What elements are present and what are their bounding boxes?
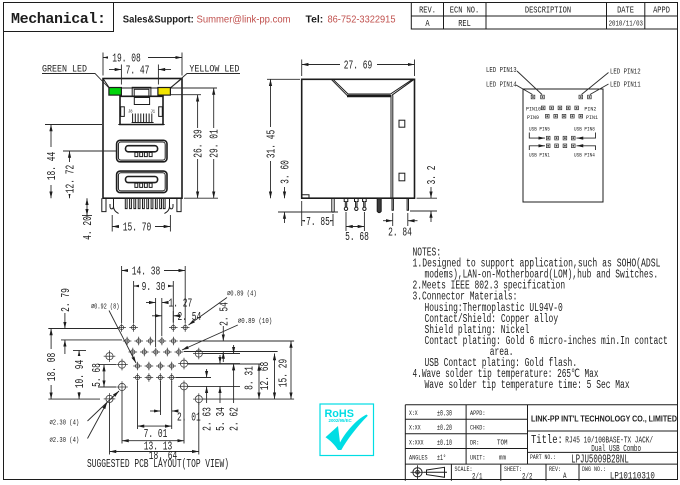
svg-text:LED PIN14: LED PIN14	[486, 82, 517, 90]
svg-text:SHEET:: SHEET:	[504, 466, 522, 473]
right extension lines	[176, 341, 294, 399]
Mechanical title box	[4, 3, 114, 32]
dim 27.69 extension lines	[302, 60, 415, 77]
svg-text:7. 85: 7. 85	[306, 215, 330, 229]
svg-text:LED PIN12: LED PIN12	[610, 69, 641, 77]
front view left flange leg	[102, 198, 106, 211]
svg-text:J1: J1	[151, 111, 156, 115]
svg-text:2. 54: 2. 54	[178, 310, 202, 324]
svg-text:18. 08: 18. 08	[45, 353, 59, 381]
svg-text:4. 20: 4. 20	[81, 216, 95, 240]
dim 5.68 ticks	[98, 365, 116, 387]
svg-text:X:XX: X:XX	[409, 425, 421, 432]
dim 3.60	[284, 187, 286, 198]
dim 27.69	[302, 64, 415, 66]
dim 18.08	[50, 329, 52, 400]
side pin thick dark	[377, 198, 381, 212]
svg-text:PIN2: PIN2	[584, 107, 596, 113]
svg-text:mm: mm	[499, 455, 506, 463]
svg-text:12. 68: 12. 68	[258, 362, 272, 390]
led holes row A	[120, 325, 124, 329]
svg-text:2. 01: 2. 01	[177, 411, 201, 425]
svg-text:A: A	[425, 18, 430, 29]
svg-text:ANGLES: ANGLES	[409, 455, 428, 462]
RJ45 inner window	[134, 98, 149, 105]
dim 1.27	[146, 302, 156, 304]
svg-text:SUGGESTED PCB LAYOUT(TOP VIEW): SUGGESTED PCB LAYOUT(TOP VIEW)	[87, 458, 229, 471]
svg-text:31. 45: 31. 45	[265, 130, 279, 158]
leader LED PIN13	[517, 71, 542, 95]
row B extension left	[61, 339, 122, 341]
svg-text:DR:: DR:	[470, 440, 479, 447]
side view body outline	[302, 79, 415, 198]
svg-text:9. 30: 9. 30	[142, 280, 166, 294]
dim 7.85	[302, 220, 333, 222]
svg-text:X:XXX: X:XXX	[409, 440, 424, 447]
dim 4.20	[86, 198, 88, 215]
svg-text:1. 27: 1. 27	[169, 297, 193, 311]
svg-text:A: A	[563, 471, 567, 481]
side ball pin 1	[344, 198, 348, 207]
leader dia 0.92	[109, 311, 136, 364]
leader LED PIN11	[590, 84, 609, 95]
svg-text:5. 68: 5. 68	[90, 363, 104, 387]
leader dia 2.30 b	[88, 403, 108, 439]
svg-text:⌀0.89 (10): ⌀0.89 (10)	[238, 318, 272, 326]
leader dia 2.30 a	[88, 391, 120, 421]
svg-text:⌀2.30 (4): ⌀2.30 (4)	[50, 437, 80, 445]
svg-text:3. 2: 3. 2	[425, 166, 439, 185]
svg-text:±0.30: ±0.30	[437, 409, 452, 419]
dim 12.72	[69, 151, 71, 198]
RJ45 port top tab	[132, 87, 151, 96]
svg-text:REV:: REV:	[549, 466, 561, 473]
svg-text:±0.20: ±0.20	[437, 423, 452, 433]
dim 2.79	[64, 313, 66, 329]
revision table	[411, 3, 678, 30]
svg-text:27. 69: 27. 69	[344, 59, 372, 73]
usb shield holes inner	[118, 361, 125, 368]
svg-text:±1°: ±1°	[437, 453, 446, 463]
mounting holes outer	[106, 353, 113, 360]
side pin thick left	[332, 198, 334, 212]
svg-text:DESCRIPTION: DESCRIPTION	[525, 5, 571, 16]
RoHS checkmark	[326, 415, 368, 451]
leader USB PIN1	[529, 146, 545, 150]
usb hole row D	[135, 364, 139, 368]
leader LED PIN12	[582, 73, 609, 95]
front view body outline	[103, 79, 182, 199]
dim 18.44 extension line top	[45, 124, 102, 126]
dim 2.84 extension lines	[393, 213, 408, 226]
led pin holes	[531, 95, 535, 99]
projection symbol cone	[424, 467, 447, 477]
svg-text:LP10110310: LP10110310	[610, 472, 655, 483]
svg-text:12. 72: 12. 72	[64, 165, 78, 193]
usb pin row 2	[546, 144, 550, 148]
green LED	[109, 88, 122, 96]
dim 9.30	[134, 285, 174, 287]
dim 31.45 extension line	[267, 78, 300, 80]
svg-text:LPJU5009B28NL: LPJU5009B28NL	[571, 453, 629, 467]
dim 13.13	[122, 440, 184, 442]
svg-text:5. 68: 5. 68	[345, 230, 369, 244]
svg-text:2002/95/EC: 2002/95/EC	[329, 418, 353, 423]
RJ45 bottom flange	[118, 124, 164, 126]
svg-text:7. 47: 7. 47	[126, 64, 150, 78]
dim 2.84	[383, 220, 393, 222]
svg-text:10. 94: 10. 94	[73, 360, 87, 388]
dim 5.68 side	[346, 226, 364, 228]
side ball pin 3	[363, 198, 367, 207]
dim 31.45	[270, 79, 272, 198]
svg-text:⌀0.89 (4): ⌀0.89 (4)	[227, 291, 257, 299]
leader dia 0.89 (10)	[182, 325, 238, 350]
svg-text:⌀2.30 (4): ⌀2.30 (4)	[50, 420, 80, 428]
dim 14.38 extension lines	[122, 266, 186, 323]
USB port 1	[117, 140, 167, 162]
dim 3.2	[430, 187, 432, 198]
svg-text:3. 60: 3. 60	[279, 160, 293, 184]
svg-text:2010/11/03: 2010/11/03	[609, 21, 644, 29]
bottom extension left	[48, 398, 100, 400]
svg-text:REV.: REV.	[419, 5, 436, 16]
dim 2.54 vertical right	[222, 326, 224, 341]
svg-text:X:X: X:X	[409, 410, 418, 417]
dim 15.29	[290, 341, 292, 399]
leader USB PIN5	[529, 133, 545, 139]
dim 15.70	[112, 226, 170, 228]
dim 18.64	[110, 451, 199, 453]
dim 7.01	[138, 425, 172, 427]
hole row C	[131, 350, 135, 354]
svg-text:USB PIN8: USB PIN8	[574, 127, 595, 133]
svg-text:APPD:: APPD:	[470, 410, 486, 417]
svg-text:APPD: APPD	[653, 5, 670, 16]
svg-text:ECN NO.: ECN NO.	[450, 5, 479, 16]
svg-text:Sales&Support:Summer@link-pp.c: Sales&Support:Summer@link-pp.comTel:86-7…	[123, 15, 396, 26]
dim 2.62	[233, 364, 235, 403]
dim 9.30 extension lines	[134, 281, 174, 323]
svg-text:PIN1: PIN1	[586, 115, 598, 121]
svg-text:USB PIN5: USB PIN5	[529, 127, 550, 133]
RJ45 port body	[120, 96, 163, 124]
svg-text:SCALE:: SCALE:	[455, 466, 473, 473]
svg-text:2. 84: 2. 84	[388, 226, 412, 240]
svg-text:⌀0.92 (8): ⌀0.92 (8)	[91, 304, 119, 312]
svg-text:DWG NO.:: DWG NO.:	[582, 466, 606, 473]
dim 19.08 extension lines	[103, 53, 182, 76]
svg-text:2. 54: 2. 54	[217, 302, 231, 326]
svg-text:CHKD:: CHKD:	[470, 425, 486, 432]
row A extension left	[48, 328, 118, 330]
dim 2.63	[206, 386, 208, 403]
dim 1.27 extension lines	[156, 298, 162, 347]
front view bottom pins	[125, 198, 127, 208]
svg-text:29. 01: 29. 01	[208, 129, 222, 157]
svg-text:LINK-PP INT'L TECHNOLOGY CO.,: LINK-PP INT'L TECHNOLOGY CO., LIMITED	[531, 414, 677, 424]
front view top chamfers	[103, 79, 182, 89]
svg-text:PART NO.:: PART NO.:	[530, 454, 556, 461]
svg-text:5. 34: 5. 34	[214, 407, 228, 431]
svg-text:2/1: 2/1	[472, 472, 483, 482]
svg-text:15. 70: 15. 70	[123, 221, 151, 235]
side ball pin 2	[355, 198, 359, 207]
usb pin row 1	[546, 136, 550, 140]
pin row PIN10-PIN2	[541, 106, 545, 110]
svg-text:DATE: DATE	[617, 5, 634, 16]
dim 7.85 extension lines	[302, 201, 333, 226]
yellow LED	[158, 88, 171, 96]
pin row PIN9-PIN1	[546, 114, 550, 118]
projection symbol circle	[413, 468, 422, 477]
dim 29.01 extension line	[171, 87, 217, 89]
svg-text:Title:: Title:	[531, 433, 563, 447]
svg-text:LED PIN13: LED PIN13	[486, 67, 517, 75]
dim 2.01	[150, 410, 161, 412]
svg-text:±0.10: ±0.10	[437, 438, 452, 448]
side latch window lower	[399, 173, 405, 181]
bottom extension verticals	[110, 381, 199, 455]
title block grid	[405, 405, 678, 481]
dim 2.54 top	[152, 315, 162, 317]
leader USB PIN4	[577, 146, 596, 150]
svg-text:15. 29: 15. 29	[277, 359, 291, 387]
side thin pin 1	[392, 198, 393, 210]
svg-text:2. 63: 2. 63	[201, 407, 215, 431]
dim 26.39	[197, 95, 199, 199]
svg-text:18. 44: 18. 44	[45, 152, 59, 180]
dim 5.68 extension lines	[346, 212, 364, 231]
side view bottom step	[302, 195, 309, 198]
side view inner vertical edge	[391, 95, 393, 198]
leader USB PIN8	[577, 133, 596, 139]
leader LED PIN14	[516, 85, 533, 95]
hole row B	[125, 339, 129, 343]
dim 2.54 top extension	[172, 311, 174, 322]
svg-text:Mechanical:: Mechanical:	[11, 11, 106, 28]
dim 10.94	[78, 351, 80, 400]
svg-text:8. 31: 8. 31	[243, 366, 257, 390]
front view right flange leg	[177, 198, 181, 211]
dim 26.39 extension lines	[171, 95, 218, 199]
leader dia 0.89 (4)	[189, 298, 228, 326]
row C extension left	[73, 350, 86, 352]
side latch window upper	[399, 120, 405, 127]
svg-text:Contact plating: Gold 6 micro-: Contact plating: Gold 6 micro-inches min…	[425, 335, 668, 348]
svg-text:2/2: 2/2	[522, 472, 533, 482]
RJ45 side latch left	[121, 107, 125, 117]
side thin pin 2	[407, 198, 408, 210]
dim 12.72 extension line top	[63, 150, 116, 152]
pin layout outline	[523, 89, 603, 202]
dim 12.68	[274, 354, 276, 400]
svg-text:LED PIN11: LED PIN11	[610, 82, 641, 90]
yellow led leader	[171, 74, 240, 88]
front view shield hook right	[164, 198, 173, 213]
side view top notch	[331, 79, 413, 97]
RoHS logo box	[320, 404, 374, 456]
svg-text:Wave solder tip temperature ti: Wave solder tip temperature time: 5 Sec …	[425, 379, 630, 392]
svg-text:PIN9: PIN9	[527, 115, 539, 121]
USB port 2	[117, 171, 167, 193]
dim 14.38	[122, 270, 186, 272]
svg-text:UNIT:: UNIT:	[470, 455, 486, 462]
dim 15.70 extension lines	[112, 215, 170, 232]
dim 19.08	[103, 57, 182, 59]
dim 8.31	[258, 364, 260, 399]
svg-text:USB PIN1: USB PIN1	[529, 153, 550, 159]
dim 29.01	[213, 88, 215, 198]
dim 5.68 pcb	[103, 365, 105, 387]
RJ45 contact comb	[133, 114, 152, 123]
dim 7.47	[109, 69, 121, 71]
green led leader	[42, 74, 109, 88]
svg-text:26. 39: 26. 39	[192, 129, 206, 157]
dim 18.44	[50, 125, 52, 199]
svg-text:14. 38: 14. 38	[132, 265, 160, 279]
svg-text:TOM: TOM	[497, 440, 508, 448]
svg-text:USB PIN4: USB PIN4	[574, 153, 595, 159]
svg-text:PIN10: PIN10	[526, 107, 541, 113]
front view shield hook left	[110, 198, 119, 213]
dim 5.34	[219, 386, 221, 403]
usb hole row E	[135, 375, 139, 379]
svg-text:REL: REL	[458, 18, 471, 29]
svg-text:2. 62: 2. 62	[228, 407, 242, 431]
RJ45 side latch right	[159, 107, 163, 117]
svg-text:2. 79: 2. 79	[59, 288, 73, 312]
dim 7.47 extension lines	[121, 65, 158, 85]
